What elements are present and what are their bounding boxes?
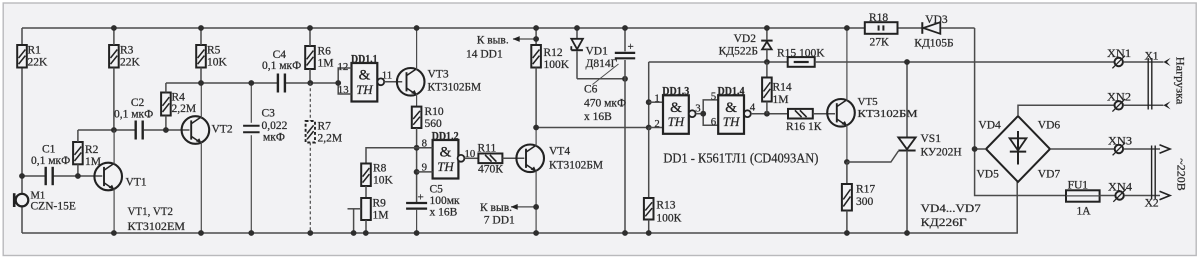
junction rail R5	[198, 25, 204, 31]
svg-text:TH: TH	[356, 82, 373, 97]
svg-text:560: 560	[425, 118, 443, 130]
wire input node C1 to VT1 base	[22, 175, 45, 177]
svg-text:300: 300	[856, 196, 874, 208]
svg-text:VT4: VT4	[549, 146, 570, 158]
svg-text:R2: R2	[85, 144, 99, 156]
wire R15 to load line	[815, 61, 1115, 63]
bridge rectifier VD4-VD7	[977, 116, 1061, 182]
svg-text:DD1.4: DD1.4	[718, 86, 745, 98]
wire XN1 to X1	[1123, 61, 1163, 63]
junction node R6/C4/R7	[307, 80, 313, 86]
svg-text:100К: 100К	[656, 213, 681, 225]
svg-text:3: 3	[695, 102, 700, 114]
wire XN4 arrow	[1124, 195, 1160, 197]
junction R2 bottom	[75, 173, 81, 179]
svg-text:TH: TH	[437, 159, 454, 174]
capacitor C3	[243, 83, 288, 233]
svg-text:VD2: VD2	[734, 33, 757, 45]
resistor R13	[644, 128, 682, 234]
svg-text:DD1.3: DD1.3	[662, 86, 689, 98]
resistor R9	[361, 186, 388, 233]
svg-text:6: 6	[711, 116, 717, 128]
svg-text:100мк: 100мк	[430, 195, 461, 207]
resistor R17	[842, 162, 876, 233]
arrow to pin 7 DD1	[480, 202, 539, 227]
svg-text:VT2: VT2	[212, 124, 233, 136]
svg-text:К выв.: К выв.	[477, 35, 509, 47]
svg-text:C6: C6	[584, 84, 598, 96]
svg-text:VD5: VD5	[977, 168, 1000, 180]
gate DD1.4	[718, 86, 745, 134]
svg-text:R1: R1	[28, 45, 42, 57]
bubble DD1.1 output	[377, 78, 384, 85]
svg-text:22K: 22K	[120, 57, 141, 69]
contact XN2	[1107, 92, 1131, 112]
svg-text:DD1.1: DD1.1	[351, 53, 378, 65]
junction rail R12	[533, 25, 539, 31]
svg-text:10K: 10K	[207, 57, 228, 69]
resistor R7 optional dashed	[306, 83, 343, 233]
junction R14 bottom	[764, 111, 770, 117]
svg-text:R17: R17	[856, 184, 875, 196]
svg-text:R11: R11	[478, 143, 497, 155]
transistor VT3	[397, 28, 481, 96]
resistor R6	[305, 28, 333, 83]
wire VT2 collector node y83	[166, 82, 278, 84]
resistor R2	[73, 130, 101, 176]
resistor R10	[412, 94, 444, 130]
contact XN1	[1107, 48, 1131, 68]
svg-text:0,1 мкФ: 0,1 мкФ	[31, 155, 70, 167]
svg-text:470 мкФ: 470 мкФ	[584, 98, 626, 110]
svg-text:1M: 1M	[318, 58, 334, 70]
wire VD1 to C6 bottom	[577, 78, 625, 80]
svg-text:27К: 27К	[870, 37, 890, 49]
svg-text:8: 8	[422, 137, 427, 149]
resistor R3	[109, 28, 140, 130]
svg-text:КТ3102БМ: КТ3102БМ	[428, 82, 482, 94]
bubble DD1.3 output	[689, 110, 696, 117]
capacitor C6 electrolytic	[584, 28, 635, 233]
svg-text:TH: TH	[668, 114, 685, 129]
label VD4-VD7 type	[921, 203, 981, 229]
svg-text:X2: X2	[1145, 198, 1159, 210]
svg-text:R15 100K: R15 100K	[777, 48, 825, 60]
resistor R14	[762, 62, 792, 114]
gate DD1.2	[432, 130, 459, 178]
svg-text:C1: C1	[42, 144, 56, 156]
svg-text:11: 11	[382, 70, 392, 82]
junction VT4 emitter ground	[533, 230, 539, 236]
wire R9 side tap	[348, 208, 362, 210]
arrow load row 1	[1163, 58, 1170, 66]
junction rail R3	[111, 25, 117, 31]
bubble DD1.4 output	[744, 110, 751, 117]
svg-text:+: +	[418, 192, 424, 204]
svg-text:1: 1	[654, 93, 659, 105]
wire DD1.4 output to R16	[751, 113, 788, 115]
wire VT4 collector node to DD1.3 pin2	[536, 127, 649, 129]
label VT1 VT2 type	[128, 204, 186, 233]
junction R17 ground	[844, 230, 850, 236]
contact XN3	[1108, 135, 1132, 155]
svg-text:R3: R3	[120, 45, 134, 57]
svg-text:2,2M: 2,2M	[172, 103, 197, 115]
gate DD1.3	[662, 86, 689, 134]
svg-text:14 DD1: 14 DD1	[466, 49, 503, 61]
svg-text:VD7: VD7	[1038, 168, 1061, 180]
connector X2	[1145, 146, 1159, 210]
wire DD1.1 input tie	[338, 68, 351, 94]
resistor R4	[161, 83, 196, 130]
junction DD1.4 inputs	[700, 111, 706, 117]
junction rail VD1	[574, 25, 580, 31]
svg-text:12: 12	[338, 61, 349, 73]
svg-text:1M: 1M	[373, 210, 389, 222]
junction VS1 cathode ground	[904, 230, 910, 236]
wire DD1.4 input tie	[703, 100, 718, 125]
junction pin9 tap	[414, 169, 420, 175]
junction R4 bottom	[163, 127, 169, 133]
capacitor C1	[31, 144, 70, 186]
wire DD1.1 output to VT3 base	[384, 81, 402, 83]
svg-text:7 DD1: 7 DD1	[484, 215, 515, 227]
transistor VT2	[182, 83, 233, 233]
bubble DD1.2 output	[458, 155, 465, 162]
junction C3 ground	[248, 230, 254, 236]
junction VT2 collector	[198, 80, 204, 86]
svg-text:КД105Б: КД105Б	[914, 38, 953, 50]
svg-text:КД522Б: КД522Б	[719, 46, 758, 58]
svg-text:0,022: 0,022	[262, 120, 288, 132]
svg-text:C3: C3	[262, 108, 276, 120]
svg-text:КД226Г: КД226Г	[921, 217, 967, 229]
svg-text:X1: X1	[1145, 51, 1159, 63]
wire VS1 gate	[847, 151, 899, 162]
resistor R15	[777, 48, 825, 67]
svg-text:R7: R7	[318, 121, 332, 133]
wire DD1.2 input stubs	[417, 147, 433, 149]
svg-text:XN4: XN4	[1108, 181, 1132, 193]
svg-text:XN3: XN3	[1108, 135, 1132, 147]
svg-text:9: 9	[422, 161, 427, 173]
svg-text:13: 13	[338, 84, 349, 96]
contact XN4	[1108, 181, 1132, 202]
svg-text:КУ202Н: КУ202Н	[921, 147, 962, 159]
resistor R16	[786, 109, 822, 133]
wire bridge left stub	[975, 148, 986, 150]
svg-text:0,1 мкФ: 0,1 мкФ	[262, 60, 301, 72]
junction input node	[19, 173, 25, 179]
svg-text:R9: R9	[373, 198, 387, 210]
thyristor VS1	[898, 62, 961, 233]
svg-text:R5: R5	[207, 45, 221, 57]
wire R18 to VD3	[898, 27, 923, 29]
wire R11 to VT4 base	[502, 157, 524, 159]
svg-text:R13: R13	[656, 200, 675, 212]
junction VT1 emitter ground	[111, 230, 117, 236]
resistor R8	[361, 148, 416, 187]
wire left column R1/M1	[21, 28, 23, 45]
wire right AC drop from VD3 to bridge and fuse row	[975, 28, 1066, 196]
transistor VT4	[516, 128, 603, 234]
junction R3/VT1 collector	[111, 127, 117, 133]
resistor R12	[531, 28, 569, 128]
svg-text:VD4...VD7: VD4...VD7	[921, 203, 981, 215]
svg-text:R8: R8	[373, 163, 387, 175]
wire VD3 to right drop	[941, 27, 975, 29]
svg-text:Нагрузка: Нагрузка	[1174, 57, 1186, 105]
junction C6 bottom node	[622, 76, 628, 82]
svg-text:R14: R14	[773, 82, 792, 94]
svg-text:2,2M: 2,2M	[318, 133, 343, 145]
svg-text:VT1, VT2: VT1, VT2	[128, 204, 174, 218]
svg-text:VD6: VD6	[1038, 120, 1061, 132]
svg-text:КТ3102ЕМ: КТ3102ЕМ	[128, 219, 186, 233]
svg-text:0,1 мкФ: 0,1 мкФ	[114, 109, 153, 121]
svg-text:R12: R12	[544, 47, 563, 59]
wire node to DD1.3 inputs	[648, 62, 650, 128]
junction C6 ground	[622, 230, 628, 236]
svg-text:х 16В: х 16В	[430, 207, 458, 219]
svg-text:VD3: VD3	[925, 14, 948, 26]
svg-text:4: 4	[750, 102, 756, 114]
arrow mains row 2	[1160, 191, 1171, 199]
svg-text:R18: R18	[869, 12, 888, 24]
junction VT4 collector node	[533, 125, 539, 131]
svg-text:VD1: VD1	[586, 46, 609, 58]
resistor R1	[17, 45, 48, 69]
resistor R5	[196, 28, 227, 83]
svg-text:XN1: XN1	[1107, 48, 1131, 60]
svg-text:DD1 - К561ТЛ1 (CD4093AN): DD1 - К561ТЛ1 (CD4093AN)	[663, 152, 818, 167]
connector X1	[1145, 51, 1159, 110]
junction DD1.3 pin1	[646, 99, 652, 105]
junction rail VD2	[764, 25, 770, 31]
svg-text:22K: 22K	[28, 57, 49, 69]
capacitor C2	[114, 97, 153, 140]
svg-text:R6: R6	[318, 46, 332, 58]
svg-text:CZN-15E: CZN-15E	[31, 200, 76, 212]
svg-text:VT1: VT1	[126, 177, 147, 189]
svg-text:10K: 10K	[373, 175, 394, 187]
arrow load row 2	[1163, 101, 1170, 109]
zener VD1	[571, 28, 617, 79]
diode VD3	[914, 14, 953, 50]
svg-text:TH: TH	[723, 114, 740, 129]
arrow mains row 1	[1160, 145, 1171, 153]
svg-text:R16 1К: R16 1К	[786, 121, 822, 133]
diode VD2	[719, 28, 773, 62]
svg-text:C5: C5	[430, 184, 444, 196]
junction rail VT5 collector	[844, 25, 850, 31]
wire top supply rail	[22, 27, 865, 29]
wire DD1.3 output to DD1.4 inputs	[696, 113, 704, 115]
transistor VT5	[827, 28, 918, 162]
wire XN2 to X1	[1123, 104, 1163, 106]
transistor VT1	[94, 130, 146, 233]
junction VT2 emitter ground	[198, 230, 204, 236]
capacitor C4	[262, 49, 301, 93]
svg-text:C2: C2	[131, 97, 145, 109]
gate DD1.1	[351, 53, 378, 101]
arrow to pin 14 DD1	[466, 35, 539, 61]
svg-text:5: 5	[711, 91, 716, 103]
wire VT1 collector node y130	[78, 129, 135, 131]
junction C5 ground	[414, 230, 420, 236]
svg-text:XN2: XN2	[1107, 92, 1131, 104]
svg-text:100K: 100K	[544, 59, 570, 71]
wire FU1 to XN4	[1100, 195, 1115, 197]
resistor R11	[478, 143, 504, 176]
svg-text:470К: 470К	[478, 164, 503, 176]
svg-text:1A: 1A	[1077, 206, 1092, 218]
svg-text:R4: R4	[172, 92, 186, 104]
junction tap ground	[351, 230, 357, 236]
junction rail VT3 collector	[414, 25, 420, 31]
svg-text:FU1: FU1	[1068, 180, 1089, 192]
svg-text:К выв.: К выв.	[480, 202, 512, 214]
junction bridge left	[972, 146, 978, 152]
wire R10 to DD1.2 inputs and C5	[416, 128, 418, 202]
wire bridge right to XN3	[1050, 148, 1115, 150]
resistor R18	[865, 12, 898, 49]
junction VS1 anode	[904, 59, 910, 65]
svg-text:DD1.2: DD1.2	[432, 130, 459, 142]
junction rail R6	[307, 25, 313, 31]
junction C3 top	[248, 80, 254, 86]
wire timing node y62	[649, 61, 788, 63]
svg-text:2: 2	[654, 118, 659, 130]
junction DD1.3 pin2	[646, 125, 652, 131]
wire R16 to VT5 base	[813, 113, 835, 115]
wire DD1.3 input stubs	[649, 101, 663, 103]
svg-text:VT3: VT3	[428, 69, 449, 81]
svg-text:мкФ: мкФ	[263, 132, 285, 144]
wire DD1.2 output to R11	[464, 157, 478, 159]
svg-text:VT5: VT5	[858, 96, 879, 108]
junction VT5 emitter	[844, 159, 850, 165]
svg-text:1M: 1M	[773, 94, 789, 106]
svg-text:КТ3102БМ: КТ3102БМ	[549, 160, 603, 172]
svg-text:х 16В: х 16В	[584, 111, 612, 123]
fuse FU1	[1066, 180, 1100, 218]
junction DD1.1 inputs	[335, 80, 341, 86]
svg-text:VD4: VD4	[978, 120, 1001, 132]
junction R8 wire	[414, 145, 420, 151]
capacitor C5 electrolytic	[406, 184, 460, 234]
junction R9 ground	[363, 230, 369, 236]
junction R13 ground	[646, 230, 652, 236]
junction rail C6	[622, 25, 628, 31]
microphone M1	[14, 190, 76, 212]
junction R7 ground	[307, 230, 313, 236]
wire XN3 arrow	[1124, 148, 1160, 150]
svg-text:VS1: VS1	[921, 133, 942, 145]
wire bottom ground rail	[22, 182, 1017, 233]
svg-text:КТ3102БМ: КТ3102БМ	[858, 109, 919, 120]
svg-text:+: +	[628, 41, 634, 53]
svg-text:~220В: ~220В	[1175, 158, 1187, 191]
wire bridge top to XN2	[1018, 105, 1115, 116]
junction VD2 bottom	[764, 59, 770, 65]
svg-text:R10: R10	[425, 106, 444, 118]
